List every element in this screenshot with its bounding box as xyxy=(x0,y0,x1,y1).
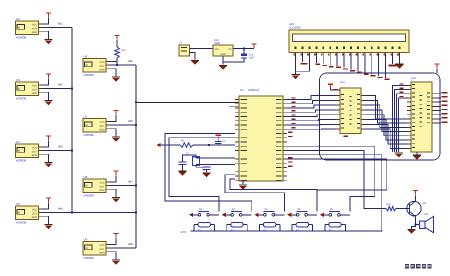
wire resistor R1 to output net xyxy=(116,58,118,65)
VCC power symbol for U4 xyxy=(46,136,51,140)
wire common key rail from MCU xyxy=(287,155,382,231)
svg-text:4B6: 4B6 xyxy=(128,119,133,123)
IR receiver module U7 xyxy=(83,119,110,133)
net label digit select 2 xyxy=(400,92,404,93)
ground symbol at J1 xyxy=(191,60,199,65)
wire digit select 2 xyxy=(397,94,408,152)
wire U8 VCC pin xyxy=(110,175,117,182)
wire P0.6 bus to latch xyxy=(287,123,336,126)
svg-text:U1: U1 xyxy=(240,88,244,92)
capacitor C2 xyxy=(178,162,186,164)
VCC power symbol for U8 xyxy=(113,171,118,175)
svg-text:GND: GND xyxy=(32,216,38,219)
svg-text:IR: IR xyxy=(18,26,21,29)
wire XTAL2 xyxy=(196,164,235,166)
wire P0.5 bus to latch xyxy=(287,120,336,121)
wire LCD pin15 backlight anode xyxy=(391,53,393,65)
net label LCD data pin14 xyxy=(385,79,390,80)
net label LCD data pin8 xyxy=(343,68,348,69)
svg-text:VCC: VCC xyxy=(100,121,105,124)
ground symbol under C2 xyxy=(178,171,186,176)
svg-text:GND: GND xyxy=(99,69,105,72)
wire segment latch output 2 xyxy=(365,105,407,127)
wire P0.4 bus to latch xyxy=(287,115,336,117)
wire P0.0 bus to latch xyxy=(287,96,336,100)
transistor Q1 xyxy=(407,201,421,217)
svg-text:VCC: VCC xyxy=(100,181,105,184)
svg-text:IR: IR xyxy=(85,64,88,67)
IR receiver module U4 xyxy=(16,144,43,158)
key common rail xyxy=(191,230,383,232)
wire U4 VCC pin xyxy=(42,140,49,147)
wire U6 VCC pin to pull-up rail xyxy=(110,60,118,62)
svg-text:U3: U3 xyxy=(16,78,20,82)
wire U5 VCC pin xyxy=(42,202,49,209)
LCD module U10 LCD1602 xyxy=(289,30,409,53)
net label P0.2 xyxy=(292,106,296,107)
net label segment output 5 xyxy=(442,113,448,114)
resistor R10 base xyxy=(386,206,396,210)
ground symbol in driver section xyxy=(394,153,402,158)
wire scan loop C from MCU xyxy=(225,175,284,212)
ground symbol under regulator xyxy=(219,65,227,70)
net label P0.5 xyxy=(292,119,296,120)
svg-text:U4: U4 xyxy=(16,140,20,144)
VCC power symbol for reset xyxy=(216,135,221,141)
wire LCD pin2 VDD xyxy=(302,53,304,63)
IR receiver module U9 xyxy=(83,242,110,256)
VCC power symbol at U11 xyxy=(328,84,340,90)
svg-text:IR: IR xyxy=(18,87,21,90)
svg-text:U11: U11 xyxy=(340,81,345,84)
svg-text:S2: S2 xyxy=(232,208,236,211)
VCC power symbol for U9 xyxy=(113,233,118,237)
VCC power symbol for U3 xyxy=(46,74,51,78)
net label LCD data pin7 xyxy=(336,67,341,68)
jumper K5 xyxy=(325,222,346,231)
wire segment latch output 4 xyxy=(365,115,407,136)
svg-text:AT89C51: AT89C51 xyxy=(248,89,260,92)
svg-text:OUT: OUT xyxy=(100,125,106,128)
VCC power symbol for U5 xyxy=(46,198,51,202)
svg-text:OUT: OUT xyxy=(32,88,38,91)
net label segment output 7 xyxy=(442,121,448,122)
svg-text:GND: GND xyxy=(99,252,105,255)
VCC power symbol at U12 xyxy=(434,64,439,73)
wire U3 VCC pin xyxy=(42,78,49,85)
ground symbol for U7 xyxy=(112,137,120,142)
net label LCD data pin9 xyxy=(350,70,355,71)
net label LCD pin6 xyxy=(329,66,334,67)
svg-text:OUT: OUT xyxy=(100,65,106,68)
wire output of U6 to right bus xyxy=(110,64,137,66)
net label digit select 0 xyxy=(400,83,404,84)
ground symbol for U8 xyxy=(112,198,120,203)
ground symbol for U3 xyxy=(44,101,52,106)
ground symbol for U5 xyxy=(44,225,52,230)
junction RST node xyxy=(208,144,210,146)
wire output of U4 to left bus xyxy=(42,150,72,152)
net label LCD pin5 xyxy=(322,65,327,66)
wire LCD data pin9 xyxy=(350,53,352,70)
wire U3 GND pin xyxy=(42,92,49,100)
ground arrow for reset resistor R2 xyxy=(157,143,181,147)
svg-text:R10: R10 xyxy=(387,203,392,206)
svg-text:HS0038: HS0038 xyxy=(84,73,95,77)
svg-text:VCC: VCC xyxy=(32,23,37,26)
svg-text:VCC: VCC xyxy=(100,244,105,247)
wire U7 GND pin xyxy=(110,129,117,137)
LCD pin number labels xyxy=(293,53,398,55)
caption title blocks xyxy=(405,264,432,269)
wire left vertical bus xyxy=(71,28,73,213)
wire LCD pin6 control xyxy=(329,53,331,66)
wire digit select 0 xyxy=(392,85,407,152)
wire emitter down xyxy=(415,216,417,224)
ground symbol under U12 xyxy=(413,152,421,160)
wire P0.1 bus to latch xyxy=(287,100,336,103)
wire LCD pin4 control xyxy=(315,53,317,64)
svg-text:IR: IR xyxy=(18,211,21,214)
svg-text:GND: GND xyxy=(220,53,225,56)
svg-text:HS0038: HS0038 xyxy=(84,256,95,260)
ground symbol for U2 xyxy=(44,40,52,45)
net label digit select 3 xyxy=(400,96,404,97)
svg-text:U2: U2 xyxy=(16,17,20,21)
svg-text:HS0038: HS0038 xyxy=(84,133,95,137)
VCC power symbol for pull-up R1 xyxy=(114,36,119,40)
ground symbol for U4 xyxy=(44,163,52,168)
svg-text:GND: GND xyxy=(99,189,105,192)
svg-text:VCC: VCC xyxy=(100,61,105,64)
power jack J1 xyxy=(179,45,190,56)
wire segment latch output 0 xyxy=(365,96,407,119)
net label on MCU right pin xyxy=(288,161,293,162)
wire J1 to regulator input xyxy=(190,48,214,50)
svg-text:VCC: VCC xyxy=(181,230,187,234)
wire LCD pin16 backlight cathode xyxy=(398,53,400,64)
jumper K4 xyxy=(292,222,313,231)
wire LCD data pin7 xyxy=(336,53,338,67)
svg-text:VCC: VCC xyxy=(32,146,37,149)
ground symbol for U9 xyxy=(112,260,120,265)
wire U6 GND pin xyxy=(110,69,117,77)
svg-text:4B7: 4B7 xyxy=(128,179,133,183)
svg-text:HS0038: HS0038 xyxy=(16,159,27,163)
net label digit select 1 xyxy=(400,88,404,89)
wire loop to row 4 xyxy=(287,159,387,190)
wire emitter to speaker xyxy=(416,224,421,226)
wire U9 GND pin xyxy=(110,252,117,260)
wire segment latch output 5 xyxy=(365,120,407,140)
display driver U12 xyxy=(407,82,436,152)
ground symbol LCD pin1 xyxy=(291,71,299,79)
IR receiver module U6 xyxy=(83,59,110,73)
svg-text:OUT: OUT xyxy=(32,150,38,153)
svg-text:OUT: OUT xyxy=(100,248,106,251)
wire segment latch output 3 xyxy=(365,110,407,132)
svg-text:VO: VO xyxy=(228,48,232,51)
wire J1 ground pin xyxy=(190,53,196,60)
wire MCU P3.3 stub xyxy=(229,105,239,107)
net label LCD data pin10 xyxy=(357,72,362,73)
VCC power symbol for U2 xyxy=(46,13,51,17)
wire R10 to transistor base xyxy=(396,208,410,210)
net label segment output 4 xyxy=(442,109,448,110)
wire P0.3 bus to latch xyxy=(287,110,336,112)
octal latch U11 74LS245 xyxy=(336,88,365,134)
wire scan loop B from MCU P3 xyxy=(169,138,235,212)
junctions on right bus xyxy=(135,124,137,126)
wire right vertical bus xyxy=(135,65,137,248)
svg-text:HS0038: HS0038 xyxy=(16,221,27,225)
svg-text:4B3: 4B3 xyxy=(58,144,63,148)
wire LCD data pin11 xyxy=(364,53,366,73)
net label LCD data pin12 xyxy=(371,75,376,76)
svg-text:HS0038: HS0038 xyxy=(16,36,27,40)
pushbutton S2 xyxy=(222,212,252,217)
net label LCD data pin13 xyxy=(378,77,383,78)
junction on left bus xyxy=(71,87,73,89)
wire VCC to resistor R1 xyxy=(116,40,118,47)
VCC power symbol at regulator output xyxy=(251,44,256,48)
svg-text:VIN: VIN xyxy=(215,48,219,51)
net label on MCU right pin xyxy=(288,136,293,137)
svg-text:VCC: VCC xyxy=(32,84,37,87)
wire segment output 5 xyxy=(436,114,441,116)
MCU left pin stubs xyxy=(235,100,239,181)
net label P0.7 xyxy=(292,127,296,128)
wire U2 GND pin xyxy=(42,31,49,39)
microcontroller U1 AT89C51 xyxy=(239,96,283,181)
wire R2 to RST node xyxy=(193,144,235,146)
junction pull-up on net xyxy=(116,64,118,66)
resistor R1 xyxy=(115,47,120,58)
wire segment output 7 xyxy=(436,122,441,124)
jumper K3 xyxy=(259,222,280,231)
svg-text:GND: GND xyxy=(99,129,105,132)
wire capacitor C10 to ground xyxy=(223,58,244,62)
svg-text:IR: IR xyxy=(85,184,88,187)
net label LCD data pin11 xyxy=(364,73,369,74)
capacitor C4 reset xyxy=(215,141,222,145)
net label segment output 3 xyxy=(442,105,448,106)
wire LCD pin5 control xyxy=(322,53,324,65)
net label on MCU right pin xyxy=(288,166,293,167)
wire XTAL1 xyxy=(196,157,235,159)
wire segment output 4 xyxy=(436,110,441,112)
pushbutton S5 xyxy=(320,212,350,217)
wire U7 VCC pin xyxy=(110,115,117,122)
svg-text:IR: IR xyxy=(85,247,88,250)
svg-text:U9: U9 xyxy=(84,237,88,241)
svg-text:U6: U6 xyxy=(84,54,88,58)
svg-text:4B1: 4B1 xyxy=(58,21,63,25)
wire U5 GND pin xyxy=(42,216,49,224)
wire segment output 3 xyxy=(436,105,441,107)
svg-text:J1: J1 xyxy=(179,41,182,45)
svg-text:4B8: 4B8 xyxy=(128,242,133,246)
ground symbol under C3 xyxy=(202,173,210,178)
ground symbol for U6 xyxy=(112,77,120,82)
net label LCD pin2 xyxy=(300,63,307,65)
wire LCD data pin13 xyxy=(378,53,380,77)
power bar LCD pin15 xyxy=(389,65,397,67)
wire emitter to ground xyxy=(412,225,416,230)
svg-text:OUT: OUT xyxy=(100,185,106,188)
net label LCD pin4 xyxy=(315,64,320,65)
crystal Y1 xyxy=(193,155,200,167)
svg-text:OUT: OUT xyxy=(32,27,38,30)
wire output of U9 to right bus xyxy=(110,247,137,249)
net label at U11 VCC xyxy=(334,89,338,90)
net label P0.6 xyxy=(292,123,296,124)
wire LCD data pin12 xyxy=(371,53,373,75)
net label segment output 1 xyxy=(442,96,448,97)
wire to speaker driver xyxy=(287,151,386,209)
svg-text:VCC: VCC xyxy=(32,208,37,211)
svg-text:4B4: 4B4 xyxy=(58,206,63,210)
wire LCD data pin10 xyxy=(357,53,359,72)
svg-text:S1: S1 xyxy=(199,208,203,211)
wire LCD data pin8 xyxy=(343,53,345,68)
svg-text:GND: GND xyxy=(32,31,38,34)
svg-text:OUT: OUT xyxy=(32,212,38,215)
wire scan loop A from MCU P3 xyxy=(165,134,252,212)
wire segment output 6 xyxy=(436,118,441,120)
wire scan loop D from MCU xyxy=(230,179,317,212)
ground symbol under Q1 xyxy=(407,229,415,234)
svg-text:4B5: 4B5 xyxy=(128,59,133,63)
jumper K2 xyxy=(227,222,248,231)
wire U2 VCC pin xyxy=(42,17,49,24)
wire segment output 2 xyxy=(436,101,441,103)
wire U9 VCC pin xyxy=(110,238,117,245)
pushbutton S4 xyxy=(287,212,317,217)
net label on MCU right pin xyxy=(288,132,293,133)
wire regulator GND pin xyxy=(222,56,224,65)
wire segment output 0 xyxy=(436,93,441,95)
capacitor C3 xyxy=(202,167,210,169)
IR receiver module U2 xyxy=(16,21,43,35)
wire LCD pin3 VO loop xyxy=(296,53,310,72)
wire regulator output to VCC xyxy=(233,48,254,50)
wire segment output 1 xyxy=(436,97,441,99)
net label on MCU right pin xyxy=(288,157,293,158)
wire LCD data pin14 xyxy=(385,53,387,78)
wire segment latch output 7 xyxy=(365,129,407,148)
svg-text:Q1: Q1 xyxy=(423,202,427,205)
MCU right pin stubs xyxy=(283,100,287,181)
IR receiver module U3 xyxy=(16,82,43,96)
wire digit select 1 xyxy=(394,90,407,153)
wire digit select 3 xyxy=(399,98,407,152)
wire P0.7 bus to latch xyxy=(287,128,336,130)
svg-text:4B2: 4B2 xyxy=(58,82,63,86)
svg-text:S5: S5 xyxy=(330,208,334,211)
wire output of U8 to right bus xyxy=(110,185,137,187)
pushbutton S1 xyxy=(189,212,219,217)
net label P0.4 xyxy=(292,114,296,115)
wire C2 to ground xyxy=(182,165,184,171)
svg-text:LCD1602: LCD1602 xyxy=(289,26,301,30)
net label P0.0 xyxy=(292,97,296,98)
wire crystal top to cap C2 xyxy=(183,155,197,162)
wire output of U7 to right bus xyxy=(110,124,137,126)
ground symbol LCD pin16 xyxy=(395,64,403,69)
display section boundary xyxy=(320,73,441,160)
svg-text:LS1: LS1 xyxy=(424,213,429,216)
net label P0.1 xyxy=(292,102,296,103)
wire output of U5 to left bus xyxy=(42,212,136,214)
wire output of U3 to left bus xyxy=(42,88,72,90)
capacitor C10 10uF xyxy=(241,54,247,59)
wire U4 GND pin xyxy=(42,154,49,162)
wire segment latch output 6 xyxy=(365,124,407,144)
wire U8 GND pin xyxy=(110,189,117,197)
VCC power symbol at Q1 xyxy=(413,191,418,197)
VCC power symbol for U7 xyxy=(113,110,118,114)
net label segment output 6 xyxy=(442,117,448,118)
net label segment output 2 xyxy=(442,100,448,101)
wire VCC rail to capacitor C10 xyxy=(243,49,245,54)
wire output of U2 to left bus xyxy=(42,27,72,29)
svg-text:R1: R1 xyxy=(122,48,126,52)
svg-text:U7: U7 xyxy=(84,114,88,118)
svg-text:GND: GND xyxy=(32,154,38,157)
ground symbol under MCU xyxy=(239,181,247,190)
svg-text:U12: U12 xyxy=(411,77,416,80)
svg-text:HS0038: HS0038 xyxy=(84,194,95,198)
net label under U11 xyxy=(344,136,349,137)
wire scan loop E from MCU right xyxy=(287,146,375,211)
svg-text:IR: IR xyxy=(85,124,88,127)
svg-text:IR: IR xyxy=(18,149,21,152)
svg-text:7805: 7805 xyxy=(214,42,220,45)
jumper K1 xyxy=(194,222,215,231)
pushbutton S3 xyxy=(254,212,284,217)
wire LCD pin1 VSS xyxy=(295,53,297,72)
IR receiver module U5 xyxy=(16,206,43,220)
net label P0.3 xyxy=(292,110,296,111)
wire P0.2 bus to latch xyxy=(287,105,336,108)
resistor R2 xyxy=(180,143,193,147)
wire segment latch output 1 xyxy=(365,100,407,123)
voltage regulator U13 7805 xyxy=(213,45,233,56)
svg-text:GND: GND xyxy=(32,92,38,95)
svg-text:U5: U5 xyxy=(16,202,20,206)
svg-text:10uF: 10uF xyxy=(249,57,255,60)
wire IR bus to MCU P3.2 xyxy=(136,101,239,103)
IR receiver module U8 xyxy=(83,179,110,193)
svg-text:S4: S4 xyxy=(297,208,301,211)
svg-text:HS0038: HS0038 xyxy=(16,97,27,101)
svg-text:U8: U8 xyxy=(84,175,88,179)
wire C3 to ground xyxy=(206,170,208,173)
wire crystal bottom to cap C3 xyxy=(196,166,207,168)
speaker LS1 xyxy=(420,217,434,233)
wire collector to VCC xyxy=(415,197,417,202)
svg-text:S3: S3 xyxy=(264,208,268,211)
net label segment output 0 xyxy=(442,92,448,93)
